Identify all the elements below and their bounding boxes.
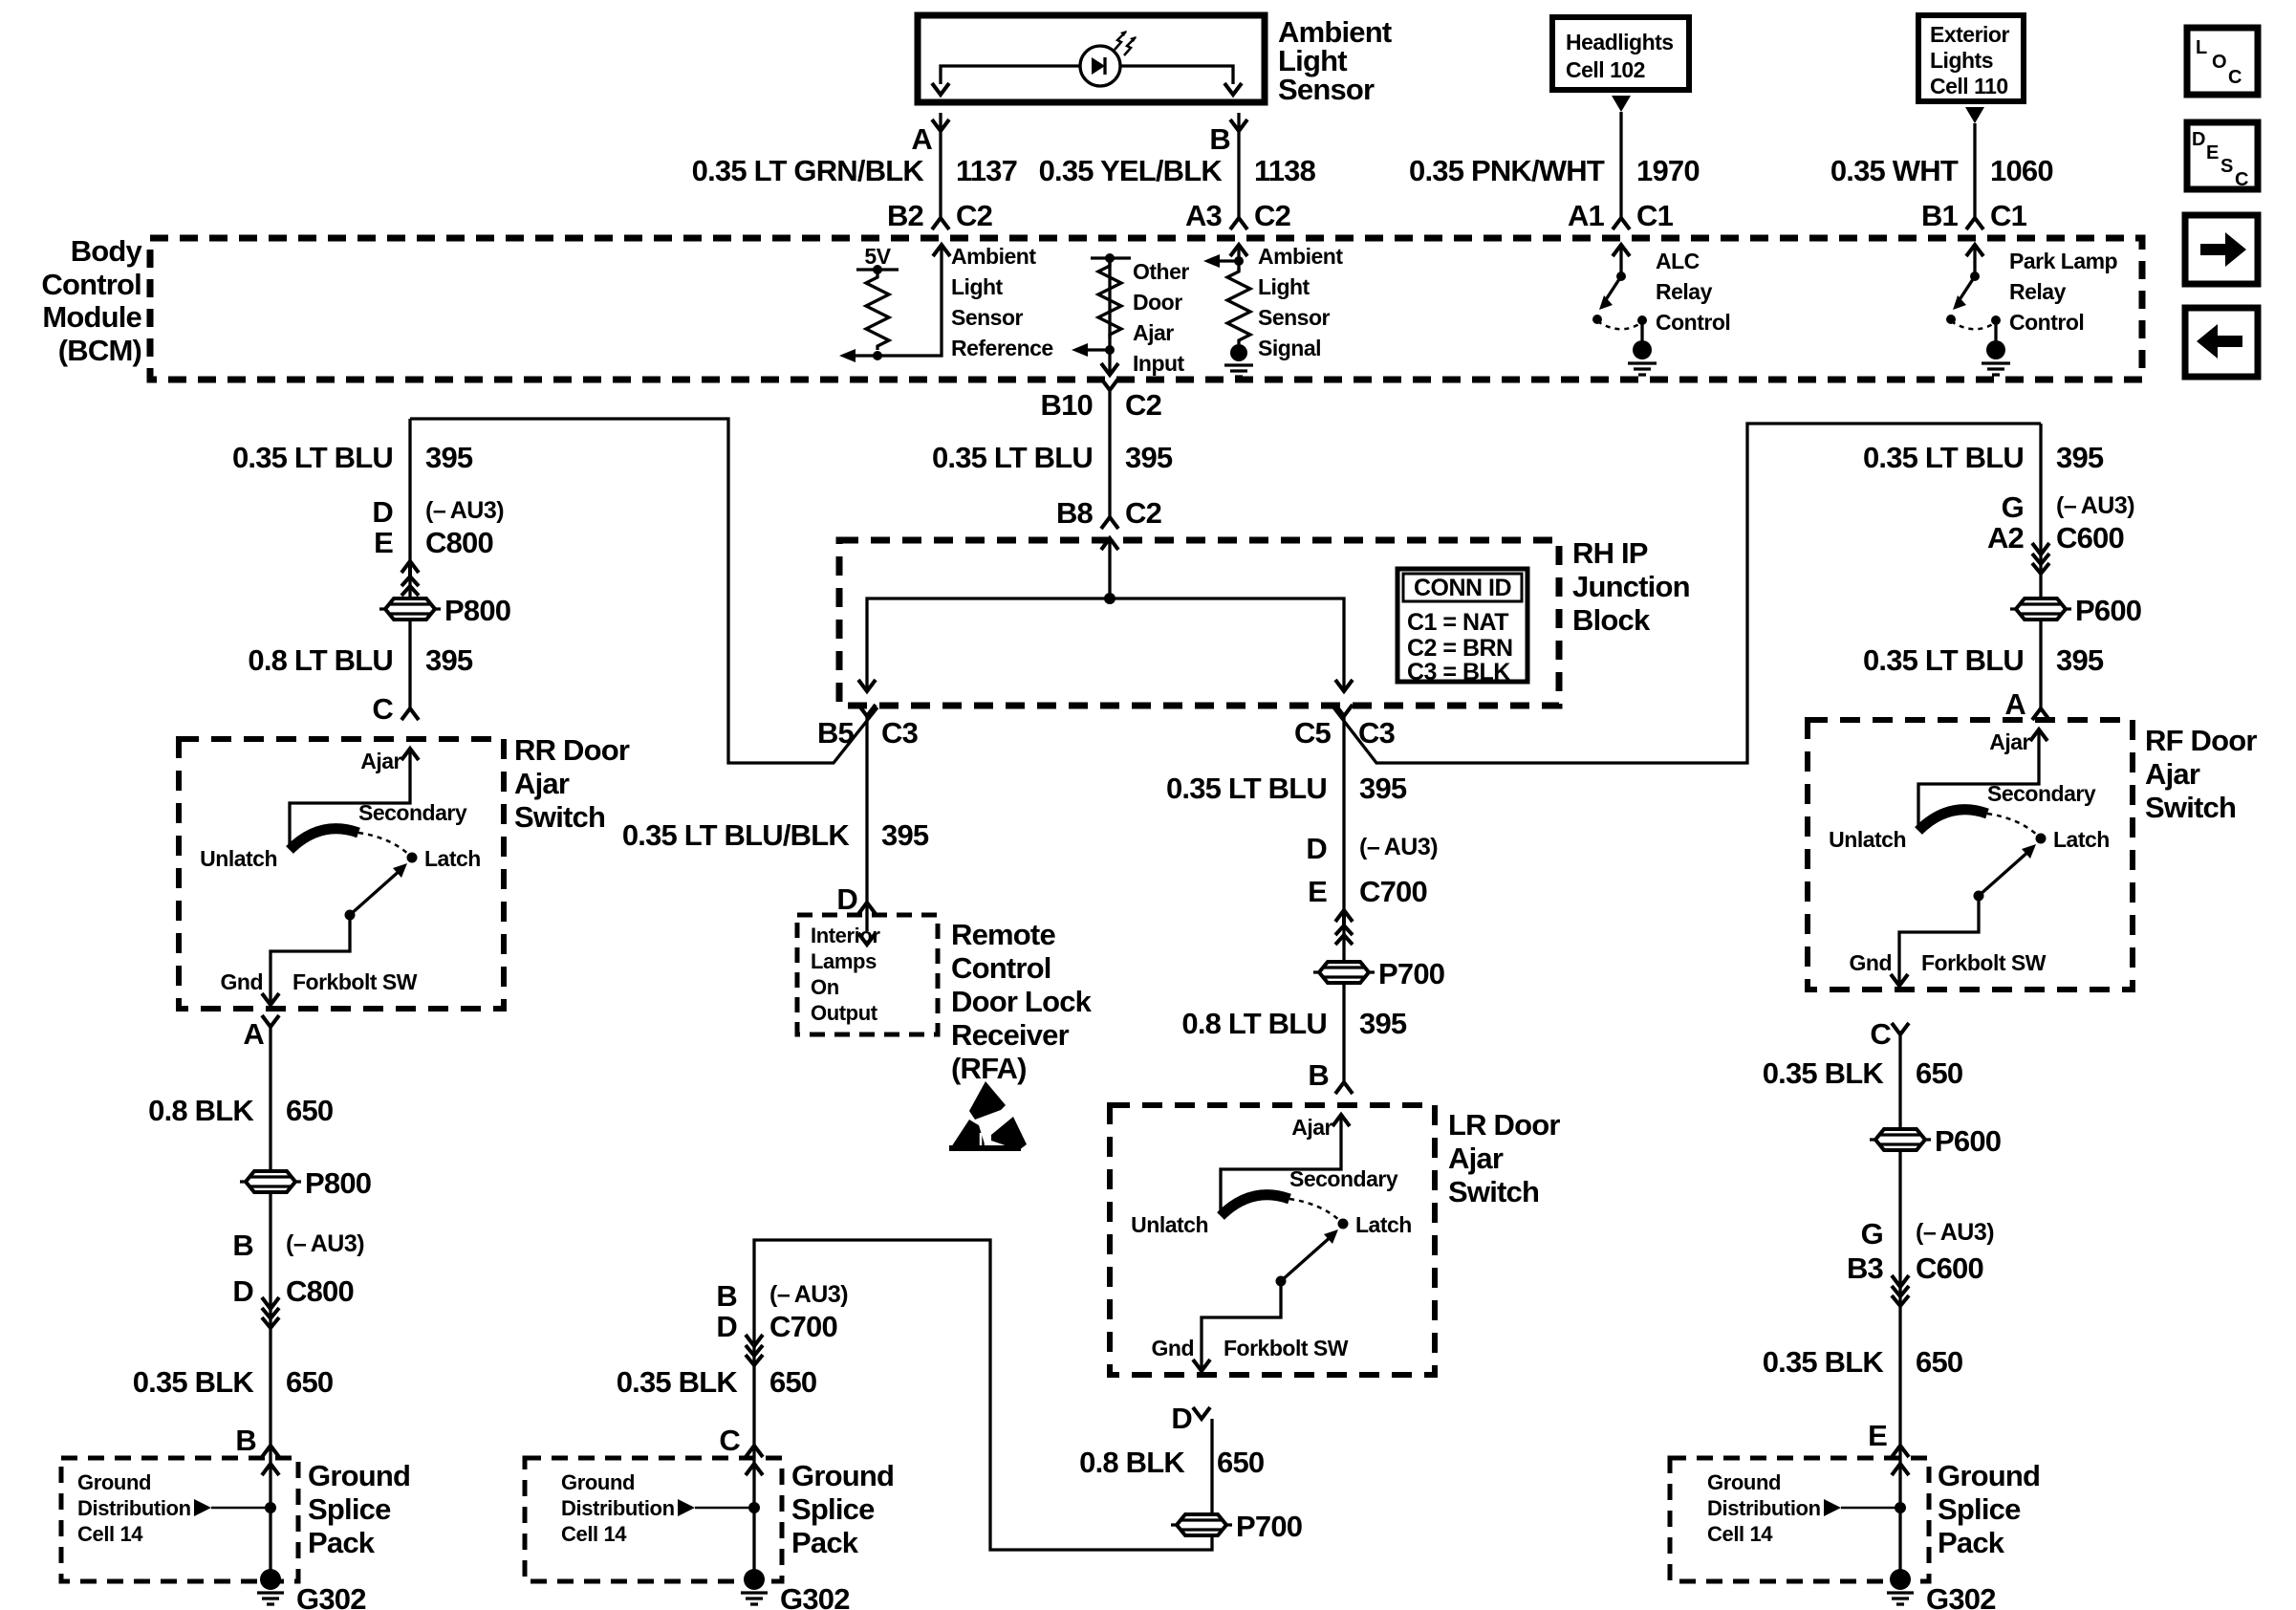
svg-text:C2 = BRN: C2 = BRN xyxy=(1407,635,1513,662)
connector fork D below LR switch xyxy=(1193,1407,1210,1419)
node signal junction xyxy=(1234,256,1244,266)
pass-through connector P700 lower xyxy=(1171,1510,1302,1543)
svg-text:D: D xyxy=(232,1274,253,1308)
svg-text:Door Lock: Door Lock xyxy=(951,985,1093,1018)
connector chev E splice xyxy=(1892,1446,1909,1457)
svg-text:Splice: Splice xyxy=(791,1492,875,1526)
svg-text:G: G xyxy=(1861,1217,1883,1251)
svg-text:Junction: Junction xyxy=(1572,570,1690,603)
pin labels B8 C2 xyxy=(1056,496,1161,530)
svg-text:1060: 1060 xyxy=(1990,154,2053,187)
svg-text:C700: C700 xyxy=(769,1310,837,1343)
pin labels B D C700 xyxy=(716,1279,848,1343)
arrow up at B2 entry xyxy=(933,245,950,256)
wire label 0.35 BLK 650 right lower xyxy=(1763,1345,1963,1379)
pin label C splice xyxy=(719,1424,740,1457)
ALC relay control label xyxy=(1656,249,1730,335)
svg-text:Receiver: Receiver xyxy=(951,1018,1070,1052)
svg-text:1970: 1970 xyxy=(1636,154,1700,187)
pin label A xyxy=(911,122,932,156)
svg-text:P800: P800 xyxy=(305,1166,371,1200)
pin label C xyxy=(1870,1017,1891,1051)
svg-text:395: 395 xyxy=(1359,1007,1407,1040)
ground splice pack 1 title xyxy=(308,1459,410,1559)
5V label xyxy=(864,244,891,269)
svg-text:0.35 BLK: 0.35 BLK xyxy=(1763,1345,1885,1379)
svg-text:395: 395 xyxy=(425,643,473,677)
connector fork A below RR switch xyxy=(262,1015,279,1027)
svg-text:(BCM): (BCM) xyxy=(58,334,141,367)
ground termination R3 xyxy=(1230,344,1247,361)
wire label 0.8 LT BLU 395 xyxy=(1181,1007,1406,1040)
junction block bus wire xyxy=(867,598,1344,691)
svg-text:Sensor: Sensor xyxy=(1258,305,1331,330)
ground splice pack 2 internals G302 xyxy=(561,1447,850,1610)
5V supply bar xyxy=(856,265,899,274)
connector chev B splice xyxy=(262,1446,279,1457)
svg-text:B: B xyxy=(716,1279,737,1313)
resistor R3 sensor signal xyxy=(1227,268,1250,344)
wire 395 C5 to LR switch xyxy=(1342,716,1345,1082)
node R2 bottom junction xyxy=(1105,345,1115,355)
sensor internal arrow right xyxy=(1224,83,1242,95)
svg-text:Light: Light xyxy=(1258,274,1310,299)
wire label 0.35 LT BLU/BLK 395 xyxy=(622,818,929,852)
svg-text:On: On xyxy=(811,975,839,999)
connector chev B LR xyxy=(1335,1082,1353,1094)
svg-text:Ajar: Ajar xyxy=(1448,1142,1504,1175)
svg-text:A1: A1 xyxy=(1568,199,1605,232)
forward arrow box xyxy=(2185,215,2258,284)
wire 395 right branch to RF switch xyxy=(2039,424,2042,708)
photodiode D1 xyxy=(1080,31,1137,86)
svg-text:Door: Door xyxy=(1133,290,1182,315)
svg-text:Ambient: Ambient xyxy=(1258,244,1343,269)
svg-text:C600: C600 xyxy=(2056,521,2124,555)
svg-text:B2: B2 xyxy=(887,199,923,232)
RR door ajar switch title xyxy=(514,733,630,834)
wire 650 LR switch ground route xyxy=(754,1240,1212,1550)
svg-text:Control: Control xyxy=(2009,310,2084,335)
pin labels B5 C3 xyxy=(817,716,919,750)
pin labels A3 C2 xyxy=(1185,199,1290,232)
svg-text:B10: B10 xyxy=(1041,388,1093,422)
connector fork C below RF switch xyxy=(1892,1023,1909,1034)
svg-text:Input: Input xyxy=(1133,351,1185,376)
svg-text:Other: Other xyxy=(1133,259,1189,284)
svg-text:D: D xyxy=(1171,1402,1192,1435)
svg-text:0.8 BLK: 0.8 BLK xyxy=(1079,1446,1185,1479)
arrow down to B5 xyxy=(858,680,876,691)
ground symbol R3 xyxy=(1224,365,1253,377)
svg-text:(RFA): (RFA) xyxy=(951,1052,1027,1085)
wire label 0.35 BLK 650 mid xyxy=(617,1365,817,1399)
svg-text:Output: Output xyxy=(811,1001,878,1025)
ambient light sensor box xyxy=(918,15,1265,102)
svg-text:C: C xyxy=(1870,1017,1891,1051)
pin labels B10 C2 xyxy=(1041,388,1162,422)
RFA title xyxy=(951,918,1093,1085)
svg-text:Body: Body xyxy=(71,234,143,268)
wire label 0.8 BLK 650 xyxy=(1079,1446,1264,1479)
svg-text:O: O xyxy=(2212,52,2227,73)
svg-text:0.35 LT BLU: 0.35 LT BLU xyxy=(1166,772,1327,805)
back arrow box xyxy=(2185,308,2258,377)
svg-text:Control: Control xyxy=(41,268,141,301)
wire label 0.35 LT BLU 395 right upper xyxy=(1863,441,2104,474)
svg-text:C700: C700 xyxy=(1359,875,1427,908)
exterior lights off-page triangle xyxy=(1965,107,1984,123)
svg-text:(– AU3): (– AU3) xyxy=(769,1281,848,1308)
pin labels B2 C2 xyxy=(887,199,992,232)
pin labels G A2 C600 xyxy=(1987,490,2134,555)
svg-text:395: 395 xyxy=(425,441,473,474)
ground splice pack 1 internals G302 xyxy=(77,1447,366,1610)
svg-text:Module: Module xyxy=(42,300,141,334)
wire label 0.35 LT BLU 395 mid xyxy=(1166,772,1407,805)
svg-text:D: D xyxy=(2192,129,2205,150)
svg-text:0.35 BLK: 0.35 BLK xyxy=(617,1365,739,1399)
ground splice pack 3 dashed box xyxy=(1670,1458,1929,1581)
svg-text:650: 650 xyxy=(286,1094,333,1127)
svg-text:Ajar: Ajar xyxy=(514,767,570,800)
internal wire sensor reference xyxy=(856,247,942,356)
pin label B xyxy=(1209,122,1230,156)
svg-text:395: 395 xyxy=(2056,441,2104,474)
exterior lights cell 110 box xyxy=(1918,15,2024,101)
LOC legend box xyxy=(2187,28,2258,95)
wire route B5 to RR door chain xyxy=(410,419,877,763)
pass-through connector P600 upper xyxy=(2010,594,2141,627)
pin labels B1 C1 xyxy=(1921,199,2027,232)
internal wire sensor signal xyxy=(1207,247,1239,271)
svg-text:C: C xyxy=(2228,67,2242,88)
svg-text:Pack: Pack xyxy=(1938,1526,2005,1559)
park lamp relay control label xyxy=(2009,249,2118,335)
svg-text:P600: P600 xyxy=(1935,1124,2001,1158)
svg-text:P800: P800 xyxy=(444,594,510,627)
connector C1 at B1 xyxy=(1966,218,1983,229)
svg-text:P700: P700 xyxy=(1378,957,1444,990)
pass-through connector P800 upper xyxy=(379,594,510,627)
interior lamps on output dashed box xyxy=(797,915,938,1034)
pin labels D E C700 xyxy=(1306,832,1438,908)
svg-text:Sensor: Sensor xyxy=(1278,73,1375,106)
CONN ID table xyxy=(1397,569,1527,685)
wire 650 RF switch to splice pack xyxy=(1898,1034,1901,1446)
headlights off-page triangle xyxy=(1612,96,1631,112)
svg-text:Lamps: Lamps xyxy=(811,949,877,973)
pin label A xyxy=(243,1017,264,1051)
connector C600 at A2 down xyxy=(2032,543,2049,574)
svg-text:0.35 LT BLU: 0.35 LT BLU xyxy=(1863,441,2024,474)
connector fork C5 xyxy=(1335,705,1353,716)
svg-text:0.35 PNK/WHT: 0.35 PNK/WHT xyxy=(1409,154,1605,187)
svg-text:Switch: Switch xyxy=(514,800,605,834)
svg-text:Ajar: Ajar xyxy=(2145,757,2200,791)
svg-text:C800: C800 xyxy=(425,526,493,559)
wire 395 RR door branch xyxy=(408,419,411,708)
svg-text:0.35 BLK: 0.35 BLK xyxy=(133,1365,255,1399)
svg-text:650: 650 xyxy=(1217,1446,1264,1479)
svg-text:C2: C2 xyxy=(1125,496,1161,530)
svg-text:ALC: ALC xyxy=(1656,249,1700,273)
pin labels G B3 C600 xyxy=(1847,1217,1994,1285)
pin label D at RFA xyxy=(836,882,857,916)
svg-text:0.8 BLK: 0.8 BLK xyxy=(148,1094,254,1127)
connector chev C splice xyxy=(746,1446,763,1457)
RR door ajar switch xyxy=(179,739,504,1009)
wire label 0.8 LT BLU 395 xyxy=(248,643,472,677)
svg-text:C3: C3 xyxy=(881,716,919,750)
svg-text:Pack: Pack xyxy=(791,1526,859,1559)
pin label B LR switch xyxy=(1308,1058,1329,1092)
svg-text:Block: Block xyxy=(1572,603,1651,637)
ambient light sensor title xyxy=(1278,15,1392,106)
resistor R1 sensor reference pull-up xyxy=(866,273,889,350)
svg-text:Headlights: Headlights xyxy=(1566,30,1674,54)
connector C2 at B2 xyxy=(932,218,949,229)
ambient light sensor signal label xyxy=(1258,244,1343,360)
connector chev C RR xyxy=(401,708,419,720)
park lamp relay xyxy=(1946,245,2010,375)
RH IP junction block dashed box xyxy=(839,540,1559,706)
svg-text:Park Lamp: Park Lamp xyxy=(2009,249,2118,273)
svg-text:Remote: Remote xyxy=(951,918,1055,951)
arrow down into interior lamps box xyxy=(858,933,876,945)
pin labels B D C800 xyxy=(232,1229,364,1308)
wire 1138 from sensor pin B to BCM A3 xyxy=(1237,113,1240,218)
pass-through connector P600 lower xyxy=(1870,1124,2001,1158)
svg-text:Ambient: Ambient xyxy=(951,244,1036,269)
ground splice pack 1 dashed box xyxy=(61,1458,298,1581)
svg-text:Control: Control xyxy=(1656,310,1730,335)
svg-text:B: B xyxy=(1209,122,1230,156)
ground splice pack 3 title xyxy=(1938,1459,2040,1559)
svg-text:A2: A2 xyxy=(1987,521,2024,555)
svg-text:(– AU3): (– AU3) xyxy=(286,1230,364,1257)
arrow down to C5 xyxy=(1335,680,1353,691)
wire label 0.35 PNK/WHT 1970 xyxy=(1409,154,1700,187)
connector C800 at D down xyxy=(262,1297,279,1328)
connector fork pin A xyxy=(932,120,949,131)
svg-text:Sensor: Sensor xyxy=(951,305,1024,330)
svg-text:650: 650 xyxy=(769,1365,816,1399)
DESC legend box xyxy=(2187,122,2258,190)
svg-text:CONN ID: CONN ID xyxy=(1414,575,1511,601)
svg-text:C: C xyxy=(719,1424,740,1457)
svg-text:C1: C1 xyxy=(1636,199,1674,232)
svg-text:B: B xyxy=(1308,1058,1329,1092)
arrow up at A3 entry xyxy=(1230,245,1247,256)
pin labels A1 C1 xyxy=(1568,199,1674,232)
svg-text:Light: Light xyxy=(951,274,1004,299)
connector chev A RF xyxy=(2032,708,2049,720)
svg-text:B: B xyxy=(232,1229,253,1262)
arrow up at B8 entry xyxy=(1101,538,1118,550)
wire label 0.8 BLK 650 xyxy=(148,1094,333,1127)
wire label 0.35 BLK 650 right upper xyxy=(1763,1056,1963,1090)
svg-text:650: 650 xyxy=(1916,1056,1962,1090)
svg-text:S: S xyxy=(2220,156,2233,177)
connector C2 at B8 xyxy=(1101,517,1118,529)
svg-text:Cell 102: Cell 102 xyxy=(1566,57,1645,82)
arrow down other door exit xyxy=(1101,363,1118,375)
svg-text:Ground: Ground xyxy=(791,1459,894,1492)
pin label A RF switch xyxy=(2004,687,2025,721)
BCM dashed box xyxy=(150,238,2142,380)
ground splice pack 3 internals G302 xyxy=(1707,1447,1996,1610)
connector C600 at B3 down xyxy=(1892,1275,1909,1306)
svg-text:B8: B8 xyxy=(1056,496,1094,530)
connector fork pin B xyxy=(1230,120,1247,131)
svg-text:(– AU3): (– AU3) xyxy=(425,497,504,524)
pin label C RR switch xyxy=(372,692,393,726)
internal wire other door ajar xyxy=(1078,258,1110,374)
RH IP junction block title xyxy=(1572,536,1690,637)
svg-text:650: 650 xyxy=(286,1365,333,1399)
svg-text:(– AU3): (– AU3) xyxy=(1359,834,1438,860)
node R1 bottom junction xyxy=(873,351,882,360)
svg-text:Splice: Splice xyxy=(308,1492,391,1526)
svg-text:1137: 1137 xyxy=(956,154,1017,187)
svg-text:Signal: Signal xyxy=(1258,336,1321,360)
svg-text:RR Door: RR Door xyxy=(514,733,630,767)
svg-text:0.35 YEL/BLK: 0.35 YEL/BLK xyxy=(1039,154,1224,187)
connector chev at RFA D xyxy=(858,903,876,914)
arrow left sensor reference xyxy=(839,349,856,362)
pin label B splice xyxy=(235,1424,256,1457)
sensor internal arrow left xyxy=(932,83,949,95)
svg-text:Ground: Ground xyxy=(1938,1459,2040,1492)
wire 1970 to BCM A1 xyxy=(1619,112,1622,218)
svg-text:C600: C600 xyxy=(1916,1251,1983,1285)
pin labels D E C800 xyxy=(372,495,504,559)
wire label 0.35 YEL/BLK 1138 xyxy=(1039,154,1316,187)
wire 1060 to BCM B1 xyxy=(1973,123,1976,218)
svg-text:G: G xyxy=(2002,490,2024,524)
pass-through connector P800 lower xyxy=(240,1166,371,1200)
connector C700 at E xyxy=(1335,910,1353,945)
svg-text:0.8 LT BLU: 0.8 LT BLU xyxy=(1181,1007,1327,1040)
other door ajar input bar xyxy=(1091,253,1131,263)
pin label E splice xyxy=(1868,1419,1887,1452)
svg-text:D: D xyxy=(1306,832,1327,865)
svg-text:C: C xyxy=(372,692,393,726)
svg-text:L: L xyxy=(2196,37,2207,58)
svg-text:P600: P600 xyxy=(2075,594,2141,627)
svg-text:0.35 LT BLU: 0.35 LT BLU xyxy=(932,441,1093,474)
connector C2 at A3 xyxy=(1230,218,1247,229)
svg-text:A: A xyxy=(911,122,932,156)
other door ajar input label xyxy=(1133,259,1189,376)
sensor internal wire xyxy=(941,66,1233,84)
wire 650 RR switch to splice pack xyxy=(269,1027,271,1446)
wire 395 B5 to RFA D xyxy=(865,716,868,931)
headlights cell 102 box xyxy=(1552,17,1689,90)
resistor R2 other door ajar xyxy=(1098,262,1121,338)
connector C800 at E xyxy=(401,561,419,596)
svg-text:D: D xyxy=(836,882,857,916)
svg-text:0.35 LT GRN/BLK: 0.35 LT GRN/BLK xyxy=(692,154,925,187)
connector fork B10 xyxy=(1101,379,1118,390)
svg-text:395: 395 xyxy=(2056,643,2104,677)
LR door ajar switch xyxy=(1110,1105,1435,1375)
svg-text:395: 395 xyxy=(1359,772,1407,805)
arrow left other door xyxy=(1072,343,1088,357)
wire route C5 to RF door chain xyxy=(1333,424,2041,763)
svg-text:Relay: Relay xyxy=(2009,279,2067,304)
svg-text:B: B xyxy=(235,1424,256,1457)
ground splice pack 2 title xyxy=(791,1459,894,1559)
svg-text:LR Door: LR Door xyxy=(1448,1108,1560,1142)
wire label 0.35 BLK 650 left xyxy=(133,1365,334,1399)
svg-text:0.35 WHT: 0.35 WHT xyxy=(1830,154,1959,187)
svg-text:Ajar: Ajar xyxy=(1133,320,1174,345)
connector C700 at D down xyxy=(746,1335,763,1365)
LR door ajar switch title xyxy=(1448,1108,1560,1208)
svg-text:C800: C800 xyxy=(286,1274,354,1308)
svg-text:(– AU3): (– AU3) xyxy=(1916,1219,1994,1246)
svg-text:Cell 110: Cell 110 xyxy=(1930,74,2008,98)
wire label 0.35 LT GRN/BLK 1137 xyxy=(692,154,1017,187)
svg-text:A: A xyxy=(243,1017,264,1051)
svg-text:C1: C1 xyxy=(1990,199,2027,232)
svg-text:E: E xyxy=(374,526,393,559)
svg-text:395: 395 xyxy=(1125,441,1173,474)
svg-text:C1 = NAT: C1 = NAT xyxy=(1407,609,1508,636)
svg-text:B3: B3 xyxy=(1847,1251,1884,1285)
connector fork B5 xyxy=(858,705,876,716)
svg-text:P700: P700 xyxy=(1236,1510,1302,1543)
svg-text:C5: C5 xyxy=(1294,716,1332,750)
splice node in junction block xyxy=(1104,593,1116,604)
svg-text:Reference: Reference xyxy=(951,336,1053,360)
svg-text:E: E xyxy=(1868,1419,1887,1452)
pin labels C5 C3 xyxy=(1294,716,1396,750)
wire 395 from BCM B10 to junction block B8 xyxy=(1108,390,1111,598)
svg-text:RF Door: RF Door xyxy=(2145,724,2257,757)
svg-text:Pack: Pack xyxy=(308,1526,376,1559)
svg-text:C: C xyxy=(2235,169,2248,190)
svg-text:Splice: Splice xyxy=(1938,1492,2021,1526)
svg-text:D: D xyxy=(716,1310,737,1343)
arrow left sensor signal xyxy=(1203,254,1220,268)
svg-text:(– AU3): (– AU3) xyxy=(2056,492,2134,519)
svg-text:E: E xyxy=(1308,875,1327,908)
svg-text:D: D xyxy=(372,495,393,529)
svg-text:1138: 1138 xyxy=(1254,154,1316,187)
svg-text:E: E xyxy=(2206,142,2219,163)
svg-text:650: 650 xyxy=(1916,1345,1962,1379)
svg-text:0.35 LT BLU: 0.35 LT BLU xyxy=(232,441,393,474)
ESD sensitive symbol xyxy=(949,1081,1027,1151)
svg-text:B1: B1 xyxy=(1921,199,1959,232)
svg-text:Relay: Relay xyxy=(1656,279,1713,304)
svg-text:C2: C2 xyxy=(1254,199,1290,232)
svg-text:0.35 LT BLU/BLK: 0.35 LT BLU/BLK xyxy=(622,818,851,852)
svg-text:Lights: Lights xyxy=(1930,48,1993,73)
svg-text:0.8 LT BLU: 0.8 LT BLU xyxy=(248,643,393,677)
svg-text:0.35 LT BLU: 0.35 LT BLU xyxy=(1863,643,2024,677)
svg-text:A3: A3 xyxy=(1185,199,1223,232)
BCM title xyxy=(41,234,142,367)
svg-text:C3 = BLK: C3 = BLK xyxy=(1407,659,1510,685)
pin label D xyxy=(1171,1402,1192,1435)
connector C1 at A1 xyxy=(1613,218,1630,229)
svg-text:C2: C2 xyxy=(1125,388,1161,422)
wire 1137 from sensor pin A to BCM B2 xyxy=(939,113,942,218)
